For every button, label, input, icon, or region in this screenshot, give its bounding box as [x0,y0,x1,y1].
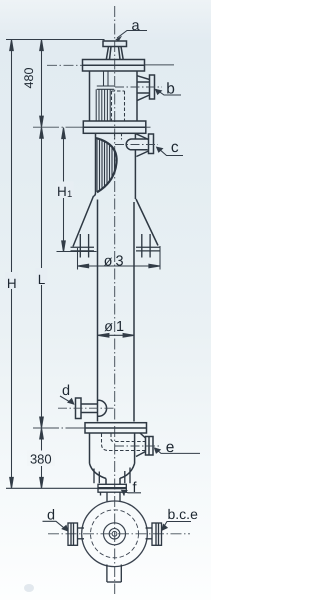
flange pair 2 [83,121,146,133]
upper body shell [90,71,138,121]
label e [154,439,200,456]
svg-text:d: d [62,383,70,399]
label 380 [27,451,55,467]
dimension H line [10,40,14,489]
main tube [98,200,135,422]
flange f [98,484,126,495]
label b [155,81,181,98]
main vertical centerline [114,6,116,594]
plan right nozzle [146,523,162,545]
svg-text:H: H [57,184,67,199]
label b.c.e [161,506,198,531]
bottom flange centerline [33,427,85,429]
svg-text:b.c.e: b.c.e [168,506,199,522]
flange 1 centerline right [145,64,175,66]
H1 bottom extension [57,251,97,253]
bottom vessel [90,433,135,484]
bottom vessel legs [94,468,130,484]
curved internal element [96,138,117,192]
nozzle b centerline [115,86,162,88]
dimension phi3 [78,246,161,270]
svg-text:H: H [7,276,17,291]
svg-text:3: 3 [115,254,123,270]
flange 2 centerline [33,126,83,128]
svg-text:1: 1 [116,319,124,335]
dimension phi1 [98,334,134,338]
dimension 480/L/380 line [40,40,44,489]
plan view circles [82,501,148,567]
label a [115,18,147,41]
curved element hatch [97,139,116,193]
svg-text:ø: ø [104,319,113,335]
label phi3 [104,254,124,270]
label H [5,272,19,291]
dimension H1 line [62,128,66,252]
nozzle d elevation [76,398,107,419]
flange 2 centerline right [146,126,151,128]
cone bottom rings [71,247,160,251]
internal dashed elbow [102,434,147,451]
label phi1 [104,319,124,335]
flange pair 1 [83,60,145,72]
nozzle c [136,134,154,157]
nozzle c elbow [126,139,147,150]
upper body internals [96,71,124,140]
svg-text:ø: ø [104,254,113,270]
flange 1 centerline [47,64,82,66]
label H1 [57,182,74,201]
svg-text:380: 380 [30,452,52,467]
smudge [24,584,34,592]
label d elevation [60,383,75,405]
nozzle e centerline [115,445,160,447]
nozzle b [137,75,155,100]
svg-text:480: 480 [22,68,36,89]
middle body shell [94,133,136,199]
legs [80,234,150,258]
bottom extension line [6,487,103,489]
outlet pipe to plan view [107,492,120,502]
nozzle d centerline [58,407,115,409]
svg-text:a: a [131,18,140,34]
top extension line [6,40,104,42]
label L [36,268,48,287]
svg-text:1: 1 [67,189,72,200]
label f [121,480,141,496]
plan horizontal centerline [48,533,190,535]
svg-text:c: c [171,139,179,156]
svg-text:f: f [132,480,137,496]
nozzle c centerline [115,144,158,146]
nozzle e [136,433,153,457]
plan left nozzle [68,523,84,545]
bottom flange pair [85,423,147,433]
label c [156,139,183,156]
nozzle a [103,41,127,60]
label d plan [43,508,69,532]
cone section [73,196,158,247]
svg-text:L: L [38,272,46,287]
plan bottom nozzle [107,565,121,583]
